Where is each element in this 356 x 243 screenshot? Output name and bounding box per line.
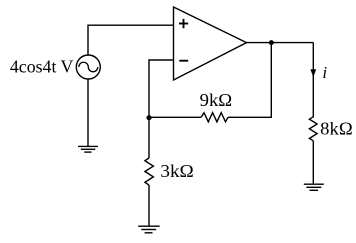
svg-text:i: i <box>322 63 327 82</box>
svg-text:8kΩ: 8kΩ <box>320 119 353 139</box>
svg-text:3kΩ: 3kΩ <box>160 161 193 181</box>
svg-text:4cos4t V: 4cos4t V <box>10 56 74 76</box>
svg-text:9kΩ: 9kΩ <box>200 90 233 110</box>
